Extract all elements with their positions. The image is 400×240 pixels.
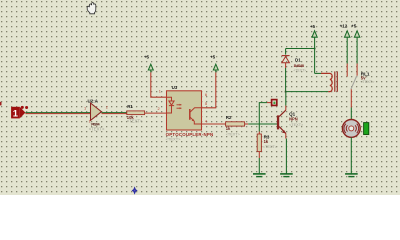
svg-text:<TEXT>: <TEXT> [127,119,143,124]
svg-text:1k: 1k [226,126,231,131]
wire buzzer to ground [350,137,352,174]
svg-text:U2:A: U2:A [88,98,99,103]
power +5 (above U3 left) [144,54,153,72]
svg-text:+5: +5 [351,23,357,28]
svg-text:1k: 1k [264,139,269,144]
wire R1 to U3 pin 2 [145,112,167,114]
wire R3 to ground [258,152,260,174]
svg-text:6: 6 [205,92,207,97]
svg-text:<TEXT>: <TEXT> [294,68,307,72]
buzzer indicator [364,123,369,135]
svg-text:+12: +12 [340,23,348,28]
relay contact NO pin (+12 side) [346,64,348,77]
svg-text:U3: U3 [172,85,178,90]
transistor Q1 [277,110,304,133]
power +5 (above relay pole) [351,23,360,63]
wire Q1 collector up [285,92,287,111]
resistor R3 [257,134,278,152]
svg-text:D1: D1 [295,57,301,62]
buffer gate U2:A [88,98,105,131]
svg-text:<TEXT>: <TEXT> [166,137,182,142]
svg-text:+5: +5 [310,24,316,29]
diode D1 [282,49,307,73]
wire +5 to U3 pin 5 [202,72,216,107]
svg-text:1: 1 [13,108,18,119]
resistor R2 [226,115,245,137]
terminal node [272,100,277,106]
relay core [334,71,336,91]
svg-text:+5: +5 [210,54,216,59]
svg-text:1: 1 [159,89,161,94]
svg-text:<TEXT>: <TEXT> [289,123,304,127]
svg-text:R1: R1 [127,104,133,109]
junction dot coil/collector [285,91,287,93]
relay pole pin down [350,89,352,107]
svg-text:2: 2 [106,105,108,110]
optocoupler U3 [166,85,214,142]
svg-text:NPN: NPN [289,117,298,122]
wire Q1 emitter to ground [285,133,288,174]
wire +5 to coil [314,49,316,74]
wire D1 cathode to +5 rail [286,48,315,50]
wire input to U2:A pin 1 [25,113,90,114]
svg-text:<TEXT>: <TEXT> [360,80,375,84]
phototransistor inside U3 [189,109,191,120]
relay contact pin (+5 side) [356,64,358,76]
junction dot at +5 rail [314,48,316,50]
buzzer BZ1 [342,119,368,137]
wire R2 to Q1 base [245,123,278,125]
wire node to terminal [259,103,271,124]
svg-text:Q1: Q1 [289,111,296,116]
svg-text:2: 2 [158,106,160,111]
ground (Q1 emitter) [280,174,293,177]
svg-text:<TEXT>: <TEXT> [226,132,241,136]
light arrows [177,104,182,106]
svg-text:<TEXT>: <TEXT> [89,127,105,132]
resistor R1 [127,104,145,124]
LED inside U3 [167,97,172,101]
svg-text:+5: +5 [144,54,150,59]
svg-text:5: 5 [205,101,207,106]
power +5 (above relay coil) [310,24,317,48]
left edge fragment [0,102,2,106]
wire +5 to U3 pin 1 [151,72,167,97]
relay lever [351,76,357,89]
ground (buzzer) [345,174,358,177]
ground (R3) [253,174,266,177]
svg-text:1N4148: 1N4148 [294,63,305,68]
power +12 (above relay contact) [340,23,350,63]
blue cursor [132,186,138,194]
wire U2:A pin 2 to R1 [102,113,127,114]
relay RL1 coil [286,71,376,91]
svg-text:1: 1 [84,105,86,110]
power +5 (above U3 right) [210,54,218,72]
wire U3 pin 4 to R2 [202,123,226,125]
wire node to R3 [258,124,260,134]
hand cursor [87,2,96,13]
wire D1 anode down to Q1 collector [285,68,287,92]
svg-text:R2: R2 [226,115,232,120]
wire pole to buzzer [350,108,352,120]
svg-text:<TEXT>: <TEXT> [263,145,278,149]
logic state input P1 [11,106,28,119]
